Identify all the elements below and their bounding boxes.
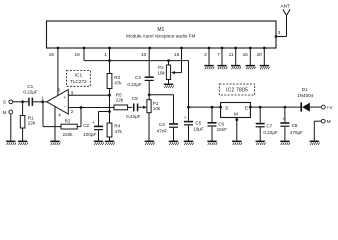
ground below R1 — [18, 141, 28, 145]
svg-text:IC2 7805: IC2 7805 — [226, 88, 248, 94]
antenna ANT — [281, 4, 291, 16]
resistor R4 — [107, 123, 112, 137]
svg-text:0.22µF: 0.22µF — [263, 130, 278, 135]
wire M terminal to ground — [10, 114, 12, 141]
capacitor C6 labels — [217, 122, 228, 132]
wire C5 to ground — [188, 125, 190, 141]
wire module pin 18 to op-amp pin 8 — [57, 48, 59, 96]
svg-text:47k: 47k — [114, 129, 122, 134]
node IC2 S pin — [219, 106, 222, 109]
svg-text:C3: C3 — [135, 75, 141, 80]
wire D1 to +V terminal — [310, 106, 322, 108]
wire C7 to ground — [259, 127, 261, 141]
node inverting input / R2 feedback tap — [80, 106, 83, 109]
svg-text:0.22µF: 0.22µF — [126, 114, 141, 119]
ground at module pin 16 — [246, 66, 256, 70]
node +5V at pin 1 column — [108, 59, 111, 62]
ground below IC2 — [232, 141, 242, 145]
wire R3 to R4 (bias node) — [109, 89, 111, 124]
svg-text:2: 2 — [204, 52, 207, 57]
svg-text:TLC272: TLC272 — [70, 79, 87, 84]
svg-text:20: 20 — [257, 52, 263, 57]
module M1 pin 20 — [257, 47, 266, 57]
potentiometer P1 labels — [153, 101, 161, 111]
module M1 pin 1 — [104, 47, 111, 57]
svg-text:0.22µF: 0.22µF — [127, 82, 142, 87]
ground below P1 — [145, 141, 155, 145]
svg-text:3: 3 — [278, 30, 281, 35]
svg-text:C2: C2 — [83, 123, 89, 128]
ground below C6 — [207, 141, 217, 145]
node IC2 E pin — [249, 106, 252, 109]
node C6 tap — [211, 106, 214, 109]
resistor R1 — [20, 116, 25, 129]
wire S node to R1 — [22, 102, 24, 116]
svg-text:10nF: 10nF — [217, 127, 228, 132]
node C8 tap — [284, 106, 287, 109]
svg-text:+: + — [282, 117, 285, 122]
wire R1 to ground — [22, 128, 24, 141]
svg-text:C5: C5 — [195, 120, 201, 125]
module M1 pin 18 — [49, 47, 60, 57]
wire module pin 7 to ground — [221, 48, 223, 65]
node C7 tap — [259, 106, 262, 109]
wire +5V to P2 — [168, 61, 170, 65]
svg-text:1N4004: 1N4004 — [297, 93, 314, 98]
potentiometer P1 body — [147, 100, 151, 113]
svg-text:16: 16 — [243, 52, 249, 57]
capacitor C6 (10nF) — [208, 122, 217, 127]
node bias at C2 tap — [108, 110, 111, 113]
capacitor C9 labels — [126, 96, 141, 119]
resistor R4 value label — [114, 124, 122, 134]
wire module pin 1 to R3 — [109, 48, 111, 74]
op-amp pin 3 wire (non-inverting input to bias node) — [68, 94, 109, 96]
wire C8 to ground — [284, 127, 286, 141]
capacitor C5 (10uF) — [184, 115, 193, 125]
wire IC2 input line — [250, 106, 301, 108]
wire R4 to ground — [109, 137, 111, 141]
svg-text:47k: 47k — [114, 80, 122, 85]
module M1 pin 16 — [243, 47, 252, 57]
svg-text:100µF: 100µF — [83, 132, 96, 137]
svg-text:220k: 220k — [63, 132, 74, 137]
module M1 box (Module Aurel recepteur audio FM) — [47, 21, 277, 48]
svg-text:18: 18 — [49, 52, 55, 57]
wire to C8 — [284, 107, 286, 122]
wire module pin 15 to P2 wiper — [171, 48, 181, 74]
ground below C4 — [169, 141, 179, 145]
ground below C5 — [184, 141, 194, 145]
svg-text:IC1: IC1 — [75, 72, 83, 78]
svg-text:−: − — [63, 106, 66, 111]
capacitor C8 (470uF) — [280, 117, 289, 127]
svg-text:1: 1 — [104, 52, 107, 57]
wire to C5 — [188, 107, 190, 121]
svg-text:47nF: 47nF — [157, 129, 168, 134]
capacitor C2 labels — [83, 123, 96, 137]
svg-text:19: 19 — [74, 52, 80, 57]
ground at module pin 11 — [231, 66, 241, 70]
svg-text:10µF: 10µF — [193, 126, 204, 131]
regulator IC2 7805 body — [221, 103, 251, 118]
capacitor C9 — [133, 104, 138, 112]
resistor R3 — [107, 74, 112, 89]
wire R5 to C9 — [128, 106, 133, 108]
svg-text:1: 1 — [41, 96, 44, 101]
module M1 pin 15 — [174, 47, 183, 57]
wire +5V riser — [188, 61, 190, 108]
wire module pin 16 to ground — [249, 48, 251, 65]
svg-text:3: 3 — [71, 91, 74, 96]
wire inverting input to R2 — [77, 108, 81, 127]
capacitor C8 labels — [290, 123, 303, 135]
svg-text:C9: C9 — [132, 96, 138, 101]
capacitor C5 labels — [193, 120, 204, 131]
terminal M (output ground) — [3, 110, 13, 116]
wire P2 to ground — [168, 80, 170, 85]
wire C6 to ground — [211, 127, 213, 141]
wire pin3 to antenna — [276, 16, 287, 37]
ground at op-amp pin 4 — [50, 141, 60, 145]
resistor R1 value label — [28, 116, 36, 126]
op-amp U IC1 TLC272 designator box — [67, 70, 91, 86]
svg-text:22k: 22k — [28, 121, 36, 126]
svg-text:C4: C4 — [159, 122, 165, 127]
wire P1 to ground — [148, 113, 150, 141]
ground below P2 — [164, 84, 174, 88]
ground at M terminal — [6, 141, 16, 145]
wire +5V rail (7805 output) — [189, 106, 221, 108]
svg-text:+: + — [92, 120, 95, 125]
ground below C2 — [94, 141, 104, 145]
svg-text:0.22µF: 0.22µF — [23, 90, 38, 95]
terminal M (supply ground) — [321, 119, 330, 125]
capacitor C1 — [28, 98, 33, 106]
svg-text:15: 15 — [174, 52, 180, 57]
diode D1 labels — [297, 87, 314, 98]
op-amp triangle IC1a — [47, 90, 69, 114]
capacitor C2 (100uF) — [92, 120, 103, 130]
wire bias node to C2 — [99, 112, 110, 126]
svg-text:C7: C7 — [266, 123, 272, 128]
wire module pin 19 to +5V rail corner — [84, 48, 110, 61]
svg-text:2: 2 — [71, 109, 74, 114]
svg-text:M1: M1 — [157, 27, 164, 33]
ground at module pin 20 — [260, 66, 270, 70]
wire C4 to ground — [173, 128, 175, 141]
wire M terminal to ground — [314, 121, 321, 141]
terminal S — [3, 100, 13, 106]
svg-text:M: M — [234, 111, 238, 117]
wire C9 to P1 wiper with arrow — [138, 106, 147, 109]
node IC2 M pin — [235, 118, 238, 121]
wire to C7 — [259, 107, 261, 123]
op-amp pin 2 wire (inverting input) — [68, 107, 114, 109]
svg-text:R2: R2 — [65, 119, 71, 124]
wire op-amp output (pin 1) — [33, 101, 47, 103]
capacitor C3 (0.22uF) — [145, 76, 154, 81]
svg-text:11: 11 — [229, 52, 234, 57]
potentiometer P2 body — [166, 65, 170, 80]
wire module pin 11 to ground — [235, 48, 237, 65]
svg-text:M: M — [3, 110, 7, 116]
svg-text:470µF: 470µF — [290, 130, 303, 135]
resistor R5 value label — [116, 93, 124, 103]
regulator IC2 designator box — [219, 84, 254, 95]
svg-text:D1: D1 — [302, 87, 308, 92]
diode D1 1N4004 — [300, 102, 310, 111]
svg-text:10k: 10k — [157, 71, 165, 76]
node +5V at P2 — [167, 59, 170, 62]
ground below C7 — [256, 141, 266, 145]
wire module pin 2 to ground — [208, 48, 210, 65]
module M1 pin 11 — [229, 47, 237, 57]
resistor R5 — [114, 105, 128, 110]
svg-text:10k: 10k — [153, 106, 161, 111]
wire to C6 — [211, 107, 213, 122]
wire +5V rail to module pin 1 and P2 — [110, 60, 189, 62]
wire C3 to P1 — [148, 81, 150, 100]
svg-text:10: 10 — [141, 52, 147, 57]
ground below R4 — [105, 141, 115, 145]
svg-text:+V: +V — [326, 105, 333, 111]
svg-text:+: + — [63, 96, 66, 101]
potentiometer P2 labels — [157, 65, 165, 75]
resistor R3 value label — [114, 75, 122, 85]
capacitor C4 (47nF) — [169, 123, 178, 128]
ground at supply M terminal — [310, 141, 320, 145]
resistor R2 — [61, 124, 77, 129]
wire IC2 M pin to ground — [236, 118, 238, 142]
wire C1 to S terminal — [13, 101, 29, 103]
wire R2 to output node — [43, 102, 61, 127]
svg-text:Module Aurel récepteur audio F: Module Aurel récepteur audio FM — [126, 34, 195, 39]
capacitor C1 labels — [23, 84, 38, 94]
capacitor C7 (0.22uF) — [256, 123, 265, 128]
svg-text:M: M — [327, 119, 331, 125]
svg-text:C1: C1 — [27, 84, 33, 89]
svg-text:S: S — [3, 100, 6, 106]
svg-text:22k: 22k — [116, 98, 124, 103]
resistor R2 value label — [63, 119, 74, 137]
module M1 pin 10 — [141, 47, 151, 57]
svg-text:P2: P2 — [158, 65, 164, 70]
module M1 pin 7 — [217, 47, 223, 57]
wire module pin 20 to ground — [263, 48, 265, 65]
op-amp pin 4 wire to ground — [54, 107, 56, 141]
module M1 pin 3 (antenna input) — [275, 30, 281, 38]
module M1 pin 19 — [74, 47, 85, 57]
ground below C8 — [280, 141, 290, 145]
capacitor C7 labels — [263, 123, 278, 135]
svg-text:+: + — [184, 115, 187, 120]
module M1 pin 2 — [204, 47, 210, 57]
svg-text:ANT: ANT — [281, 4, 291, 9]
ground at module pin 2 — [204, 66, 214, 70]
wire C2 to ground — [98, 130, 100, 141]
capacitor C3 labels — [127, 75, 142, 87]
wire audio node to C4 — [149, 95, 173, 123]
capacitor C4 labels — [157, 122, 168, 133]
node bias at non-inverting input — [108, 94, 111, 97]
svg-text:7: 7 — [217, 52, 220, 57]
node op-amp output — [41, 100, 44, 103]
svg-text:C8: C8 — [292, 123, 298, 128]
terminal +V — [321, 105, 333, 111]
node C5 tap — [187, 106, 190, 109]
node audio to C4 filter — [148, 93, 151, 96]
ground at module pin 7 — [217, 66, 227, 70]
wire module pin 10 to C3 — [148, 48, 150, 76]
node C1 / R1 — [21, 100, 24, 103]
